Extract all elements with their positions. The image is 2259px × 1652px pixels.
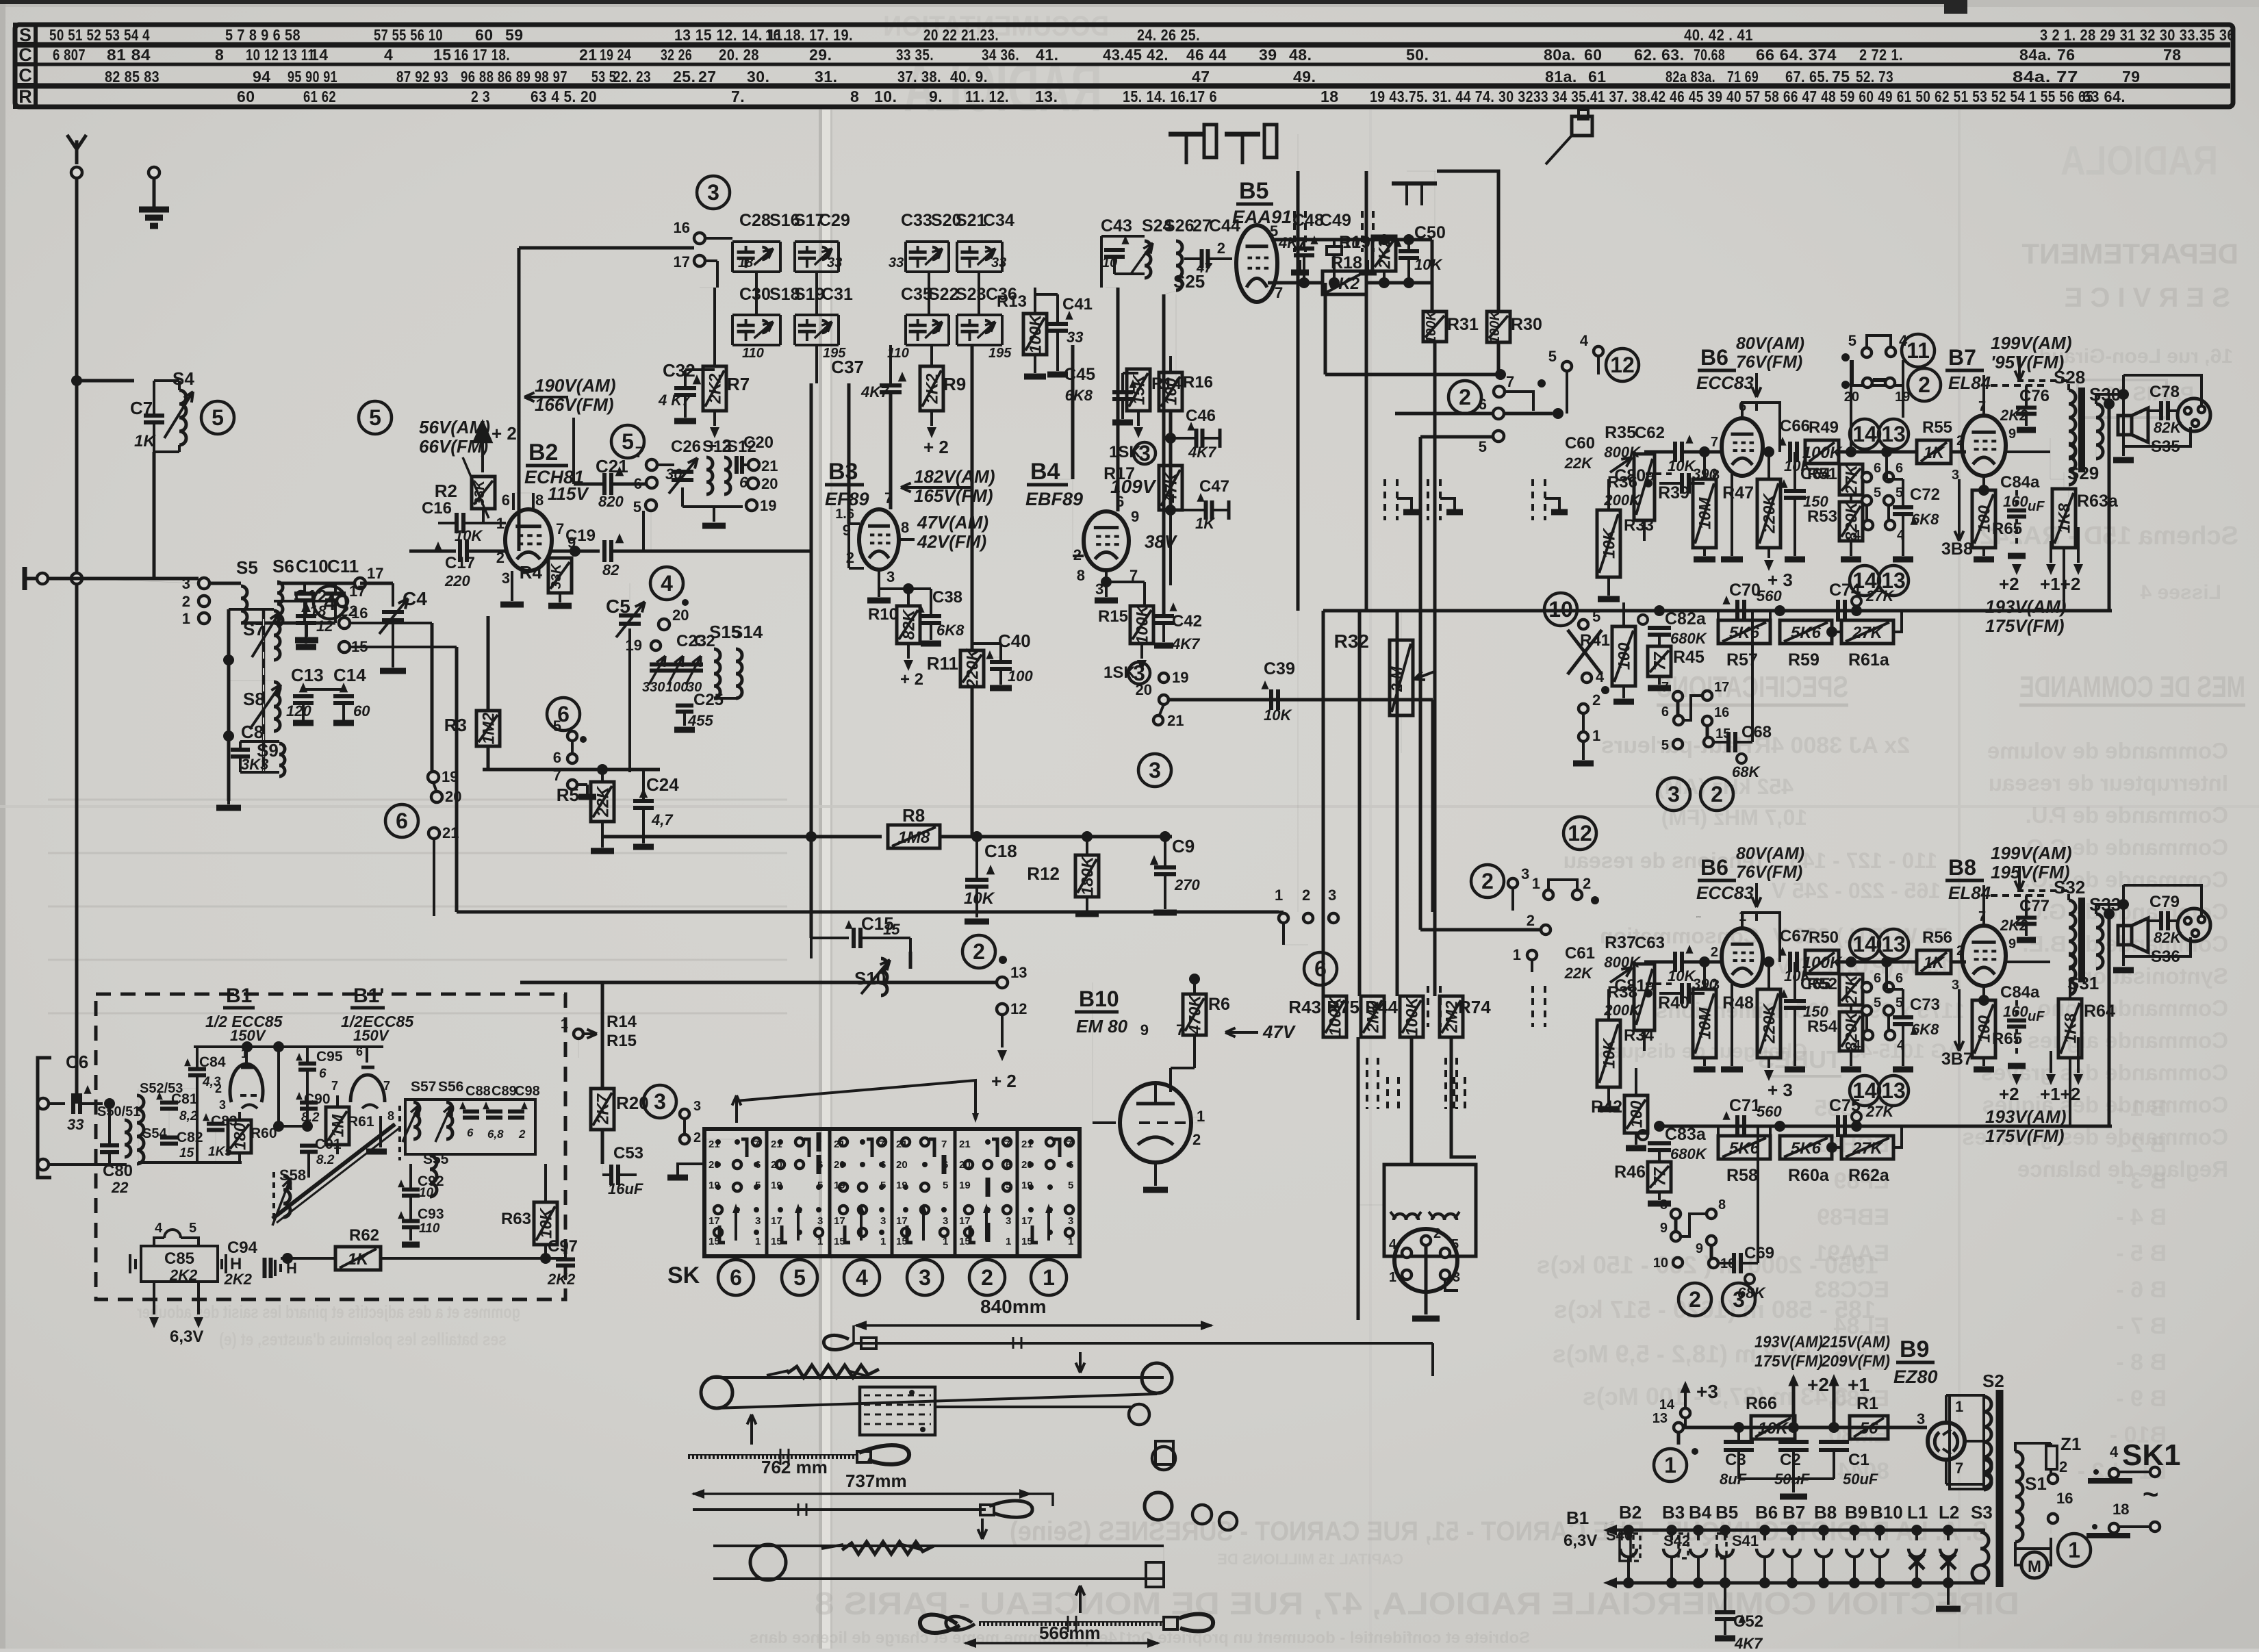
svg-text:+2: +2 [1999, 574, 2019, 594]
reference table frame [15, 25, 2233, 107]
svg-text:4: 4 [1389, 1237, 1397, 1252]
svg-text:C93: C93 [418, 1206, 444, 1222]
circled 3 top [697, 176, 730, 209]
svg-text:S58: S58 [279, 1167, 306, 1184]
svg-text:840mm: 840mm [980, 1296, 1047, 1317]
lower drum [750, 1545, 786, 1580]
svg-text:10M: 10M [1696, 1007, 1715, 1040]
svg-text:+1+2: +1+2 [2040, 1084, 2080, 1104]
svg-text:7: 7 [879, 1139, 884, 1150]
svg-text:L2: L2 [1939, 1502, 1959, 1523]
svg-text:6: 6 [1006, 1159, 1011, 1171]
pulley line 4 [713, 1545, 1164, 1547]
resistor R53 820K [1839, 502, 1863, 541]
wire y1332 extension right [1279, 911, 1284, 913]
label R14 R15 arrow [583, 1032, 597, 1035]
svg-text:8: 8 [1077, 567, 1085, 584]
svg-text:1: 1 [817, 1236, 823, 1247]
svg-text:3: 3 [817, 1215, 823, 1227]
fuse Z1 [2046, 1446, 2057, 1469]
svg-text:B 7 -: B 7 - [2116, 1313, 2167, 1339]
dimension 566mm [965, 1642, 1158, 1644]
svg-text:5: 5 [1848, 332, 1856, 349]
svg-text:1: 1 [755, 1236, 761, 1247]
tuning diagonal line [272, 1124, 395, 1219]
SK cells contacts [715, 1139, 721, 1145]
svg-text:2: 2 [1527, 912, 1535, 929]
svg-text:8.2: 8.2 [301, 1110, 320, 1125]
svg-text:17: 17 [959, 1215, 971, 1227]
svg-text:199V(AM): 199V(AM) [1991, 333, 2071, 353]
svg-text:EBF89: EBF89 [1817, 1204, 1889, 1230]
svg-text:B 3 -: B 3 - [2116, 1168, 2167, 1194]
svg-text:25.: 25. [673, 68, 695, 86]
svg-text:175V(FM): 175V(FM) [1985, 615, 2065, 636]
capacitor C3 8uF [1724, 1440, 1754, 1444]
circled 3 det [1138, 754, 1171, 787]
svg-text:C90: C90 [304, 1091, 331, 1107]
svg-text:63.: 63. [1661, 46, 1684, 64]
svg-text:9: 9 [2008, 427, 2016, 442]
svg-text:59: 59 [505, 26, 524, 44]
svg-text:20: 20 [834, 1159, 845, 1171]
tuning drum box [860, 1387, 935, 1435]
svg-text:10K: 10K [964, 889, 995, 908]
svg-text:Commande de volume: Commande de volume [1987, 738, 2228, 763]
capacitor C42 [1153, 614, 1174, 618]
wire oscillator verticals [349, 622, 432, 624]
svg-text:Z1: Z1 [2060, 1434, 2081, 1454]
capacitor C19 [602, 540, 607, 562]
svg-text:100K: 100K [1027, 314, 1045, 354]
fold crease center [819, 110, 822, 1649]
svg-text:R32: R32 [1334, 631, 1369, 652]
circled 2 upper mid [1448, 381, 1481, 414]
svg-text:2 3: 2 3 [471, 88, 490, 105]
svg-text:17: 17 [367, 565, 383, 582]
svg-text:20: 20 [672, 607, 689, 624]
svg-text:30.: 30. [747, 68, 769, 86]
wire antenna vertical [75, 178, 79, 1104]
svg-text:C2: C2 [694, 632, 715, 650]
svg-text:+1+2: +1+2 [2040, 574, 2080, 594]
svg-text:6: 6 [634, 475, 642, 492]
svg-text:C94: C94 [227, 1238, 258, 1257]
resistor R61 1M [326, 1107, 349, 1145]
svg-text:19: 19 [760, 497, 776, 514]
svg-text:2: 2 [1583, 875, 1591, 892]
resistor R59 5K6 [1780, 620, 1832, 644]
svg-text:R33: R33 [1624, 516, 1654, 535]
svg-text:MES DE COMMANDE: MES DE COMMANDE [2019, 670, 2245, 704]
svg-text:C85: C85 [164, 1249, 194, 1268]
resistor R31 100K [1423, 312, 1446, 342]
wire mid vertical B1 [277, 1047, 280, 1126]
supply +1 +2 right B8 [2046, 1074, 2056, 1085]
svg-text:C77: C77 [2019, 897, 2050, 915]
wire HT rail [1684, 1426, 1910, 1429]
IF1 box A [737, 251, 755, 254]
svg-text:C67: C67 [1780, 927, 1810, 945]
svg-text:16: 16 [351, 605, 368, 622]
svg-text:S57: S57 [411, 1079, 436, 1095]
SK wires top [737, 1080, 975, 1117]
circled 14 13 B6 [1850, 419, 1880, 449]
svg-text:7: 7 [884, 490, 893, 507]
svg-text:2 72 1.: 2 72 1. [1859, 46, 1903, 64]
svg-text:Interrupteur de reseau: Interrupteur de reseau [1989, 770, 2228, 796]
svg-text:63 64.: 63 64. [2082, 88, 2126, 105]
svg-text:3: 3 [182, 575, 190, 592]
svg-text:47V: 47V [1262, 1021, 1297, 1042]
wire rails x1896 x1996 [1297, 171, 1300, 611]
circled 2 lower and terminal 3 [1471, 865, 1504, 898]
svg-text:B6: B6 [1755, 1502, 1778, 1523]
terminals 1 2 lower strip feed [1541, 925, 1550, 935]
svg-text:2: 2 [973, 939, 985, 964]
svg-text:5: 5 [1479, 438, 1487, 455]
svg-text:3: 3 [1733, 1287, 1745, 1312]
wire trap feed [77, 379, 134, 383]
svg-text:17: 17 [349, 583, 366, 600]
svg-text:7.: 7. [731, 88, 745, 105]
svg-text:60: 60 [475, 26, 494, 44]
svg-text:33: 33 [827, 255, 842, 270]
svg-text:5: 5 [1006, 1180, 1011, 1191]
resistor R65 100 [1972, 490, 1995, 548]
switch contacts B6 out [1862, 982, 1872, 992]
svg-text:R16: R16 [1183, 373, 1213, 392]
cord 762mm [688, 1455, 856, 1459]
switch contacts B6 out [1862, 472, 1872, 482]
svg-text:C82a: C82a [1665, 609, 1707, 628]
svg-text:50.: 50. [1406, 46, 1429, 64]
dashed shield stubs mid [1366, 1058, 1368, 1109]
svg-text:15: 15 [834, 1236, 845, 1247]
svg-text:C34: C34 [983, 211, 1014, 230]
wire 150V rail B1 [194, 1045, 383, 1048]
svg-text:16: 16 [2056, 1490, 2073, 1507]
svg-text:100K: 100K [1424, 310, 1439, 344]
svg-text:4K7: 4K7 [1171, 635, 1201, 652]
svg-text:+1: +1 [1848, 1374, 1869, 1395]
wire IF2 links [928, 272, 930, 315]
motor M [2021, 1552, 2047, 1578]
dial lamps L1 L2 [1909, 1554, 1924, 1569]
svg-text:68K: 68K [1732, 763, 1761, 780]
svg-text:16: 16 [1714, 705, 1729, 720]
IF2 box B [960, 251, 978, 254]
svg-text:R58: R58 [1726, 1166, 1758, 1185]
resistor R43 100K [1323, 996, 1347, 1037]
terminals 16 15 [339, 618, 350, 628]
svg-text:C52: C52 [1733, 1612, 1763, 1631]
svg-text:185 - 580 m (1620 - 517: 185 - 580 m (1620 - 517 kc)s [1554, 1295, 1876, 1323]
svg-text:R12: R12 [1027, 863, 1060, 884]
svg-text:165 - 220 - 245 V: 165 - 220 - 245 V [1771, 878, 1941, 903]
svg-text:1: 1 [182, 610, 190, 627]
svg-text:2: 2 [1481, 869, 1494, 893]
wire B6 cathode [1731, 474, 1733, 556]
svg-text:9: 9 [2008, 937, 2016, 952]
svg-text:S26: S26 [1164, 216, 1194, 236]
svg-text:5: 5 [212, 405, 224, 430]
svg-text:27K: 27K [1865, 587, 1895, 605]
ground B2 cathode [511, 571, 513, 601]
svg-text:R30: R30 [1511, 315, 1542, 334]
svg-text:182V(AM): 182V(AM) [914, 466, 995, 487]
svg-text:+2: +2 [1999, 1084, 2019, 1104]
svg-text:80a.: 80a. [1544, 46, 1576, 64]
svg-text:2K2: 2K2 [923, 373, 942, 405]
svg-text:20: 20 [709, 1159, 720, 1171]
svg-text:7: 7 [816, 1139, 821, 1150]
drum right pulleys [1152, 1447, 1175, 1470]
svg-text:1M: 1M [329, 1114, 348, 1137]
svg-text:B5: B5 [1239, 178, 1268, 204]
svg-text:17: 17 [896, 1215, 908, 1227]
svg-text:4: 4 [1596, 668, 1605, 685]
dashed shield stubs top [1293, 211, 1296, 252]
svg-text:6: 6 [467, 1126, 474, 1139]
svg-text:2: 2 [1459, 385, 1471, 409]
svg-text:R52: R52 [1807, 975, 1837, 993]
svg-text:6,3V: 6,3V [1564, 1532, 1597, 1550]
capacitor C83a 680K [1638, 1130, 1648, 1140]
circled 1 power right [2058, 1534, 2091, 1566]
SK left ground [678, 1164, 704, 1175]
svg-text:2 M: 2 M [1388, 666, 1405, 692]
wire S52 top [138, 1089, 139, 1162]
svg-text:6: 6 [755, 1159, 761, 1171]
svg-text:3: 3 [886, 568, 895, 585]
svg-text:8: 8 [1718, 1197, 1726, 1212]
svg-text:S23: S23 [956, 285, 986, 304]
svg-text:20: 20 [761, 475, 778, 492]
wires into pickup box [1410, 1068, 1414, 1164]
svg-text:C80: C80 [103, 1162, 133, 1180]
wire S30 down to bus [2108, 404, 2111, 611]
svg-text:15: 15 [1021, 1236, 1033, 1247]
svg-text:5: 5 [793, 1265, 806, 1290]
svg-text:1: 1 [496, 515, 505, 532]
svg-text:31.: 31. [815, 68, 837, 86]
svg-text:19: 19 [442, 768, 458, 785]
ground symbol top [149, 167, 159, 178]
svg-text:R7: R7 [727, 374, 750, 394]
svg-text:13: 13 [1652, 1411, 1668, 1426]
wire B8 cathode [1982, 986, 1985, 1000]
svg-text:52. 73: 52. 73 [1856, 68, 1893, 86]
svg-text:C14: C14 [333, 665, 366, 685]
svg-text:S8: S8 [243, 689, 265, 709]
svg-text:4K7: 4K7 [1734, 1635, 1763, 1649]
svg-text:5: 5 [633, 498, 641, 516]
svg-text:Sobriete et confidentiel - d: Sobriete et confidentiel - document un p… [750, 1629, 1530, 1647]
svg-text:B8: B8 [1948, 855, 1976, 880]
svg-text:S4: S4 [173, 368, 194, 389]
svg-text:C66: C66 [1780, 417, 1810, 435]
svg-text:1K: 1K [1924, 444, 1945, 462]
svg-text:C45: C45 [1064, 365, 1095, 384]
resistor R48 220K [1757, 989, 1781, 1058]
svg-text:27: 27 [698, 68, 717, 86]
svg-text:18: 18 [2113, 1501, 2129, 1518]
svg-text:R14: R14 [607, 1013, 637, 1031]
terminal 4 upper [1594, 346, 1603, 356]
svg-text:76V(FM): 76V(FM) [1736, 353, 1802, 372]
svg-text:+ 2: + 2 [991, 1071, 1017, 1091]
svg-text:84a.: 84a. [2019, 46, 2052, 64]
svg-text:R11: R11 [927, 653, 958, 674]
svg-text:18: 18 [738, 255, 754, 270]
wire DIN pin3 down [1445, 1280, 1458, 1291]
resistor R34 10K [1597, 1020, 1620, 1087]
wire AVC feed x1933 [1322, 611, 1325, 996]
cord 566mm [920, 1614, 960, 1633]
svg-text:193V(AM): 193V(AM) [1985, 596, 2066, 617]
svg-text:S2: S2 [1982, 1371, 2004, 1391]
svg-text:R75: R75 [1327, 997, 1360, 1017]
svg-text:5: 5 [1874, 485, 1881, 500]
svg-text:50 51 52 53 54 4: 50 51 52 53 54 4 [49, 26, 150, 44]
svg-text:94: 94 [253, 68, 271, 86]
svg-text:3: 3 [707, 180, 719, 205]
wire B4 in [1073, 555, 1084, 557]
svg-text:S41: S41 [1732, 1532, 1759, 1549]
svg-text:B9: B9 [1900, 1336, 1929, 1362]
svg-text:193V(AM): 193V(AM) [1985, 1106, 2066, 1127]
svg-text:209V(FM): 209V(FM) [1821, 1352, 1890, 1371]
svg-text:B2: B2 [1619, 1502, 1642, 1523]
svg-text:8: 8 [387, 1109, 394, 1123]
wire feedback bus C71 [1659, 1125, 2112, 1128]
SK block frame [704, 1129, 1080, 1256]
SK circled numbers [718, 1260, 754, 1295]
upper switch block 5 4 20 19 [1862, 348, 1872, 357]
svg-text:1: 1 [943, 1236, 948, 1247]
svg-text:49.: 49. [1293, 68, 1316, 86]
svg-text:R36: R36 [1607, 473, 1637, 492]
IF1 box D [798, 324, 816, 327]
svg-text:6: 6 [1661, 704, 1669, 720]
svg-text:C61: C61 [1565, 944, 1595, 963]
svg-text:C29: C29 [819, 211, 850, 230]
svg-text:42V(FM): 42V(FM) [917, 531, 986, 552]
supply arrows +2 +1 +3 [1788, 1374, 1798, 1386]
svg-text:21: 21 [761, 457, 778, 474]
svg-text:82K: 82K [900, 609, 919, 640]
svg-text:1: 1 [1592, 727, 1600, 744]
svg-text:S19: S19 [794, 285, 824, 304]
wire x1986 rail [1358, 611, 1362, 996]
svg-text:C1: C1 [1848, 1451, 1869, 1469]
svg-text:C17: C17 [445, 554, 475, 572]
resistor R52 27K [1839, 974, 1863, 1005]
wire y1124 row [483, 768, 660, 772]
svg-text:3: 3 [880, 1215, 886, 1227]
svg-text:84a. 77: 84a. 77 [2013, 68, 2078, 86]
svg-text:21: 21 [709, 1139, 720, 1150]
svg-text:C38: C38 [932, 588, 962, 607]
svg-text:R9: R9 [943, 374, 966, 394]
svg-text:20: 20 [1021, 1159, 1033, 1171]
svg-text:150V: 150V [353, 1027, 390, 1044]
svg-text:R63a: R63a [2077, 492, 2119, 511]
svg-text:13.: 13. [1035, 88, 1058, 105]
svg-text:7: 7 [754, 1139, 759, 1150]
resistor R74 2M2 [1440, 996, 1463, 1037]
svg-text:DIRECTION COMMERCIALE RADIOL: DIRECTION COMMERCIALE RADIOLA, 47, RUE D… [815, 1586, 2019, 1621]
svg-text:21: 21 [896, 1139, 908, 1150]
svg-text:15: 15 [433, 46, 452, 64]
svg-text:S14: S14 [731, 622, 763, 642]
shield symbols volume lines [1383, 479, 1386, 520]
pickup coils [1394, 1214, 1418, 1220]
svg-text:560: 560 [1757, 587, 1782, 605]
resistor R3 1M2 [476, 711, 500, 746]
right pulley top [1142, 1363, 1172, 1393]
wire x2093 down [1431, 700, 1435, 912]
svg-text:C10: C10 [296, 556, 329, 576]
svg-text:C8: C8 [241, 722, 264, 742]
svg-text:5: 5 [1661, 738, 1669, 753]
svg-text:17: 17 [771, 1215, 782, 1227]
svg-text:10 12 13 11: 10 12 13 11 [246, 46, 315, 64]
wire x1240 column [847, 383, 851, 524]
resistor R54 820K [1839, 1012, 1863, 1051]
wire columns to DIN [1357, 1037, 1360, 1320]
heater bus left arrows [1608, 1529, 1609, 1531]
capacitor C82a 680K [1638, 615, 1648, 624]
svg-text:20: 20 [445, 788, 461, 805]
svg-text:1: 1 [1955, 1398, 1963, 1415]
svg-text:6 807: 6 807 [53, 46, 86, 64]
svg-text:180: 180 [231, 1122, 250, 1150]
resistor R33 10K [1597, 510, 1620, 577]
transformer core power [1996, 1390, 2004, 1587]
circled 14 13 B6 [1850, 929, 1880, 959]
svg-text:R61: R61 [348, 1114, 374, 1130]
supply +2 B7 [2012, 564, 2021, 575]
svg-text:100K: 100K [1403, 996, 1422, 1037]
svg-text:15K: 15K [1130, 374, 1149, 405]
svg-text:87 92 93: 87 92 93 [396, 68, 448, 86]
svg-text:16 18. 17. 19.: 16 18. 17. 19. [765, 26, 853, 44]
svg-text:6: 6 [553, 749, 561, 766]
svg-text:10K: 10K [1600, 1037, 1619, 1069]
svg-text:B10: B10 [1079, 987, 1119, 1011]
tension spring 2 [842, 1542, 934, 1554]
svg-text:470K: 470K [1186, 994, 1205, 1035]
svg-text:R: R [18, 86, 32, 107]
capacitor C44 [1200, 249, 1204, 268]
svg-text:C40: C40 [998, 631, 1031, 651]
node terminals 3 2 1 [199, 578, 209, 589]
svg-text:82: 82 [602, 561, 620, 579]
svg-text:EBF89: EBF89 [1025, 489, 1083, 509]
svg-text:21: 21 [579, 46, 598, 64]
svg-text:21: 21 [834, 1139, 845, 1150]
wire main IF line y805 [409, 550, 456, 553]
svg-text:+ 2: + 2 [706, 435, 732, 456]
svg-text:3B8: 3B8 [1941, 539, 1973, 559]
svg-text:63 4 5. 20: 63 4 5. 20 [531, 88, 597, 105]
svg-text:15: 15 [896, 1236, 908, 1247]
pulley line 2 [713, 1394, 1157, 1408]
svg-text:R60: R60 [251, 1126, 277, 1141]
voltage 182V 165V [901, 486, 972, 489]
